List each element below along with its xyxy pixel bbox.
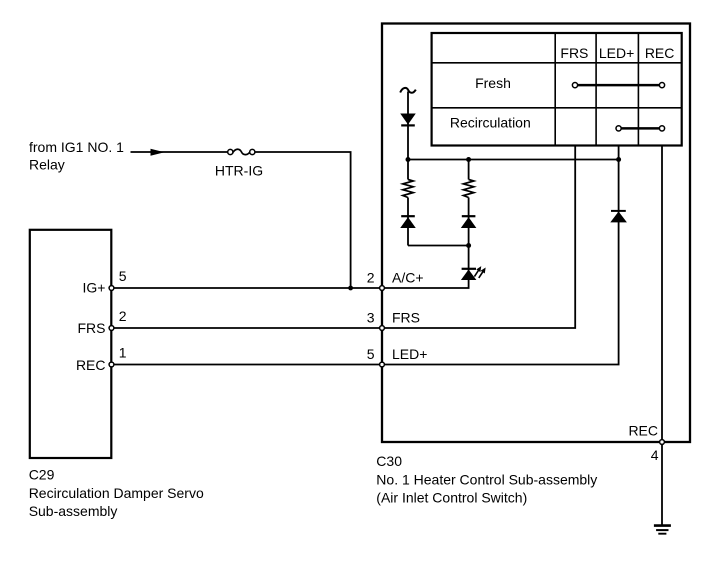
svg-text:IG+: IG+ bbox=[83, 279, 106, 295]
svg-text:LED+: LED+ bbox=[599, 45, 634, 61]
svg-text:Relay: Relay bbox=[29, 156, 65, 172]
svg-text:from IG1 NO. 1: from IG1 NO. 1 bbox=[29, 139, 124, 155]
svg-text:2: 2 bbox=[367, 270, 375, 286]
svg-text:No. 1 Heater Control Sub-assem: No. 1 Heater Control Sub-assembly bbox=[376, 471, 597, 487]
svg-text:Sub-assembly: Sub-assembly bbox=[29, 503, 118, 519]
svg-text:2: 2 bbox=[119, 308, 127, 324]
svg-text:A/C+: A/C+ bbox=[392, 270, 424, 286]
svg-text:FRS: FRS bbox=[78, 320, 106, 336]
svg-text:REC: REC bbox=[76, 357, 106, 373]
svg-text:REC: REC bbox=[628, 423, 658, 439]
svg-text:1: 1 bbox=[119, 345, 127, 361]
svg-text:3: 3 bbox=[367, 310, 375, 326]
svg-text:5: 5 bbox=[119, 268, 127, 284]
svg-text:Recirculation Damper Servo: Recirculation Damper Servo bbox=[29, 485, 204, 501]
svg-text:LED+: LED+ bbox=[392, 346, 427, 362]
svg-text:C29: C29 bbox=[29, 467, 55, 483]
svg-text:Recirculation: Recirculation bbox=[450, 115, 531, 131]
svg-text:4: 4 bbox=[651, 447, 659, 463]
svg-text:(Air Inlet Control Switch): (Air Inlet Control Switch) bbox=[376, 490, 527, 506]
svg-text:FRS: FRS bbox=[392, 310, 420, 326]
svg-text:5: 5 bbox=[367, 346, 375, 362]
svg-text:HTR-IG: HTR-IG bbox=[215, 162, 263, 178]
svg-text:C30: C30 bbox=[376, 453, 402, 469]
svg-text:Fresh: Fresh bbox=[475, 75, 511, 91]
svg-text:FRS: FRS bbox=[560, 45, 588, 61]
svg-text:REC: REC bbox=[645, 45, 675, 61]
